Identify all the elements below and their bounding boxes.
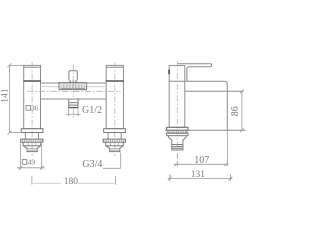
left knurled flange (49) — [21, 139, 43, 142]
svg-text:49: 49 — [28, 157, 36, 166]
label G3/4 with leader — [103, 153, 121, 169]
side knurled ring — [168, 130, 187, 133]
svg-text:131: 131 — [191, 170, 206, 180]
right neck — [108, 133, 121, 140]
indicator dot — [168, 70, 170, 75]
spout profile — [169, 81, 243, 130]
side flange 2 — [167, 133, 188, 136]
side body centerline — [176, 61, 178, 153]
crossbar — [41, 83, 107, 99]
svg-text:G1/2: G1/2 — [82, 105, 102, 116]
left column handle bottom thick line — [23, 80, 40, 82]
left column body — [24, 65, 41, 128]
svg-text:G3/4: G3/4 — [82, 159, 102, 170]
diverter plate — [59, 83, 87, 90]
diverter knob — [69, 71, 77, 81]
dimension 180 — [32, 176, 116, 185]
right knurled flange — [103, 139, 125, 142]
lever handle — [178, 64, 212, 81]
right column body — [106, 65, 123, 128]
diverter knob feet — [70, 80, 76, 82]
G1/2 dimension — [66, 109, 81, 117]
dimension 141 — [7, 63, 23, 134]
left backnut and tail — [23, 142, 41, 151]
svg-text:141: 141 — [1, 88, 11, 103]
dimension 131 — [168, 174, 233, 181]
svg-text:36: 36 — [31, 103, 39, 112]
right column centerline — [114, 62, 116, 156]
right base plate — [104, 129, 126, 133]
label square49 — [22, 157, 35, 166]
dimension 107 — [174, 153, 229, 167]
right backnut and tail G3/4 — [106, 142, 124, 151]
svg-text:107: 107 — [194, 155, 209, 166]
nipple centerline — [72, 108, 74, 118]
shower outlet nipple G1/2 — [69, 99, 78, 108]
svg-text:86: 86 — [230, 106, 241, 116]
side backnut and tail — [169, 136, 187, 150]
left neck — [25, 133, 38, 140]
svg-text:180: 180 — [64, 177, 78, 187]
label square36 — [26, 103, 39, 112]
crossbar centerline — [28, 90, 121, 92]
side body — [169, 66, 185, 128]
side base plate — [167, 127, 188, 130]
dimension square49 — [17, 144, 45, 170]
left column centerline — [31, 62, 33, 156]
spout tip extension line — [226, 130, 228, 166]
right column handle bottom thick line — [106, 80, 124, 82]
dimension 86 — [240, 89, 244, 132]
left base plate — [21, 129, 43, 133]
diverter centerline — [72, 65, 74, 99]
crossbar faint front edge — [41, 86, 107, 88]
deck line — [165, 129, 246, 131]
